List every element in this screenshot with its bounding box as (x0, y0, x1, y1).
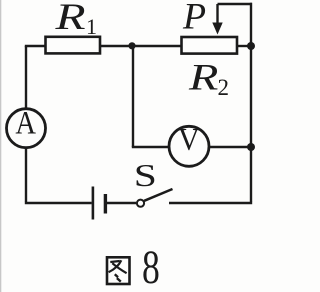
svg-text:A: A (15, 105, 36, 141)
svg-text:S: S (134, 158, 157, 193)
svg-text:R: R (188, 57, 219, 98)
svg-text:R: R (54, 0, 85, 37)
svg-text:1: 1 (86, 14, 97, 39)
svg-text:P: P (182, 0, 206, 37)
svg-text:8: 8 (142, 242, 160, 292)
svg-text:V: V (178, 122, 200, 157)
svg-text:2: 2 (218, 75, 230, 100)
